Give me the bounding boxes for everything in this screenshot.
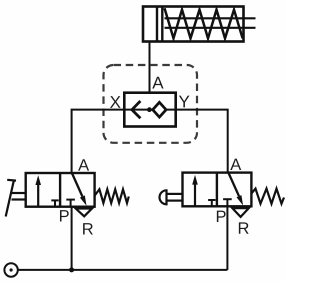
cylinder C1 piston [157, 7, 162, 42]
valve V2 blocked port T (left position) [208, 200, 215, 206]
svg-text:X: X [110, 93, 121, 112]
svg-text:A: A [78, 157, 89, 175]
enclosure dashed box around shuttle valve [104, 65, 198, 143]
svg-text:R: R [238, 220, 250, 238]
valve V1 blocked port T (right position, P) [66, 200, 75, 207]
wire X to left valve port A [72, 110, 125, 173]
valve V2 (right 3/2 valve) body [183, 173, 252, 207]
junction dot on supply bus [69, 267, 74, 272]
cylinder C1 piston rod [165, 18, 256, 28]
shuttle valve U1 sealing element diamond [153, 102, 166, 117]
svg-text:A: A [152, 73, 164, 92]
wire Y to right valve port A [176, 110, 228, 173]
shuttle valve U1 left seat chevron [132, 101, 141, 118]
valve V2 flow arrow (left position P to A) [192, 175, 198, 206]
valve V1 flow arrow (left position P to A) [35, 175, 41, 206]
valve V2 push button actuator [160, 190, 183, 204]
valve V2 exhaust arrow A to R [228, 173, 243, 206]
valve V2 exhaust triangle at R [232, 208, 248, 217]
svg-text:R: R [82, 220, 94, 238]
svg-text:A: A [230, 156, 241, 174]
shuttle valve U1 internal line [124, 109, 175, 111]
valve V1 (left 3/2 valve) body [26, 173, 95, 207]
valve V2 return spring [251, 189, 284, 204]
supply bus wire [18, 269, 227, 271]
valve V1 blocked port T (left position) [51, 200, 58, 206]
shuttle valve U1 body [124, 93, 175, 127]
pressure source S1 [4, 263, 17, 276]
valve V1 exhaust triangle at R [76, 209, 92, 217]
cylinder C1 body [143, 7, 244, 42]
wire cylinder port to shuttle valve port A [149, 42, 151, 110]
svg-text:P: P [59, 207, 70, 225]
junction dot node A inside shuttle valve [147, 107, 152, 112]
valve V1 exhaust arrow A to R [72, 173, 87, 206]
wire bus up to right valve P [226, 206, 228, 270]
valve V1 pedal actuator [6, 180, 26, 217]
wire internal horizontal through shuttle valve [124, 109, 175, 111]
wire left valve P down to supply bus [71, 207, 73, 270]
valve V2 blocked port T (right position, P) [223, 199, 232, 206]
svg-text:Y: Y [179, 92, 190, 111]
valve V1 return spring [95, 189, 129, 203]
cylinder C1 return spring [165, 8, 243, 38]
svg-text:P: P [215, 208, 226, 226]
